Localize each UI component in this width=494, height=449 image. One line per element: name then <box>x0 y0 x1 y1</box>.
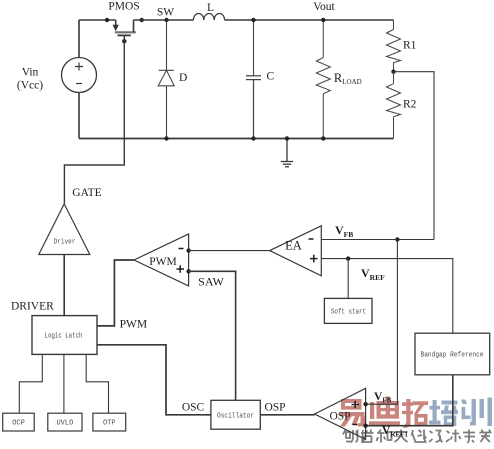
svg-text:EA: EA <box>285 239 302 253</box>
wire OSP in from oscillator <box>260 414 314 416</box>
wire top rail left (Vin to PMOS source) <box>79 19 116 21</box>
node R1/R2 <box>391 70 395 74</box>
capacitor C branch <box>253 20 255 76</box>
block UVLO <box>48 413 82 431</box>
diode D <box>158 70 174 138</box>
wire latch to UVLO <box>63 354 65 413</box>
wire feedback tap to right rail <box>394 72 435 240</box>
op-amp PWM <box>134 234 189 286</box>
node C top <box>251 18 255 22</box>
voltage source Vin (Vcc) <box>62 58 97 93</box>
wire latch to OCP <box>19 354 42 413</box>
node PMOS drain dot <box>140 18 144 22</box>
EA plus mark <box>310 255 318 263</box>
wm char tuo <box>402 399 428 428</box>
wire latch to oscillator <box>97 345 211 415</box>
PWM minus mark <box>179 248 184 250</box>
wire to soft start <box>347 259 349 299</box>
resistor R2 <box>387 72 401 139</box>
node gnd <box>285 136 289 140</box>
svg-text:Logic Latch: Logic Latch <box>45 333 83 341</box>
svg-text:GATE: GATE <box>72 187 101 199</box>
svg-text:OSP: OSP <box>264 402 285 414</box>
svg-text:VREF: VREF <box>361 266 385 282</box>
svg-text:Vin: Vin <box>22 67 39 79</box>
svg-text:DRIVER: DRIVER <box>11 301 54 313</box>
svg-text:SW: SW <box>157 7 174 19</box>
wire bandgap out to OSP minus <box>366 375 453 426</box>
svg-text:(Vcc): (Vcc) <box>17 80 43 92</box>
svg-text:Vout: Vout <box>313 1 335 13</box>
wire VFB down to OSP <box>366 240 398 405</box>
node Vout <box>321 18 325 22</box>
transistor Q1 PMOS <box>113 20 136 35</box>
capacitor C <box>246 76 261 139</box>
svg-text:SAW: SAW <box>198 275 224 289</box>
inductor L <box>193 14 224 21</box>
node gate dot <box>122 39 126 43</box>
svg-text:PWM: PWM <box>149 256 176 268</box>
svg-text:OTP: OTP <box>103 420 116 428</box>
wire VREF <box>321 259 453 334</box>
svg-text:Driver: Driver <box>54 239 76 247</box>
svg-text:R1: R1 <box>403 40 417 52</box>
wire top rail right (L to R1 corner) <box>225 19 394 21</box>
wm char di <box>369 397 400 426</box>
block Oscillator <box>211 400 260 429</box>
wm char tian <box>395 430 408 443</box>
svg-text:Bandgap Reference: Bandgap Reference <box>421 352 484 360</box>
wire PWM out to latch <box>97 260 134 326</box>
svg-text:PMOS: PMOS <box>108 1 139 13</box>
wm char she2 <box>429 431 443 443</box>
node PMOS source dot <box>105 18 109 22</box>
block OTP <box>93 413 126 431</box>
wm char zhuan <box>463 430 475 443</box>
diode D branch wire <box>166 20 168 70</box>
EA minus mark <box>309 238 314 240</box>
op-amp Driver <box>39 204 90 255</box>
op-amp +/- marks <box>177 239 360 425</box>
node softstart junction <box>346 256 350 260</box>
svg-text:OSC: OSC <box>182 402 205 414</box>
svg-text:VFB: VFB <box>335 223 353 239</box>
svg-text:Soft start: Soft start <box>331 309 366 317</box>
wire SAW <box>189 271 236 400</box>
wire latch to OTP <box>86 354 108 413</box>
wm char pei <box>429 400 458 426</box>
wm char yi <box>340 399 365 427</box>
node PWM minus <box>186 248 190 252</box>
svg-text:OSP: OSP <box>329 411 350 423</box>
wire driver out <box>63 255 65 316</box>
wm char pin <box>361 430 374 444</box>
wm char jia <box>480 430 492 443</box>
wire gate down <box>64 35 124 203</box>
svg-text:R2: R2 <box>403 99 417 111</box>
resistor RLOAD <box>316 20 330 139</box>
ground <box>281 139 293 167</box>
block OCP <box>3 413 35 431</box>
svg-text:L: L <box>207 2 214 14</box>
wm char she <box>343 430 358 443</box>
wire VFB <box>321 239 434 241</box>
svg-text:C: C <box>267 71 275 83</box>
block Soft start <box>324 298 372 323</box>
block Logic Latch <box>32 316 97 355</box>
node diode-gnd <box>164 136 168 140</box>
resistor R1 <box>387 20 401 72</box>
node OSP plus <box>363 402 367 406</box>
watermark small gray line <box>343 430 492 444</box>
OSP plus mark <box>352 401 360 409</box>
svg-text:UVLO: UVLO <box>56 420 73 428</box>
node RLOAD bottom <box>321 136 325 140</box>
svg-text:Oscillator: Oscillator <box>217 413 254 421</box>
svg-text:VFB: VFB <box>374 391 392 405</box>
node VFB junction <box>395 237 399 241</box>
wm char xian <box>412 430 427 443</box>
node PWM plus <box>186 269 190 273</box>
svg-text:RLOAD: RLOAD <box>334 71 362 86</box>
node C bottom <box>251 136 255 140</box>
wm char xun <box>461 398 492 427</box>
op-amp EA <box>270 226 322 276</box>
block Bandgap Reference <box>415 333 490 375</box>
node SW <box>164 18 168 22</box>
PWM plus mark <box>177 265 185 273</box>
op-amp OSP <box>315 388 366 439</box>
wire ground rail (bottom) <box>79 138 394 140</box>
svg-text:OCP: OCP <box>12 420 25 428</box>
wire EA out to PWM minus <box>189 250 270 252</box>
watermark big line <box>340 397 428 428</box>
svg-text:D: D <box>179 72 187 84</box>
wm char ji <box>446 430 461 443</box>
wm char he <box>377 430 392 443</box>
node OSP minus <box>363 424 367 428</box>
wire Vin top <box>78 20 80 58</box>
wire top rail mid (drain to inductor) <box>134 19 194 21</box>
svg-text:PWM: PWM <box>120 319 147 331</box>
OSP minus mark <box>353 424 358 426</box>
wire Vin bottom <box>78 93 80 139</box>
